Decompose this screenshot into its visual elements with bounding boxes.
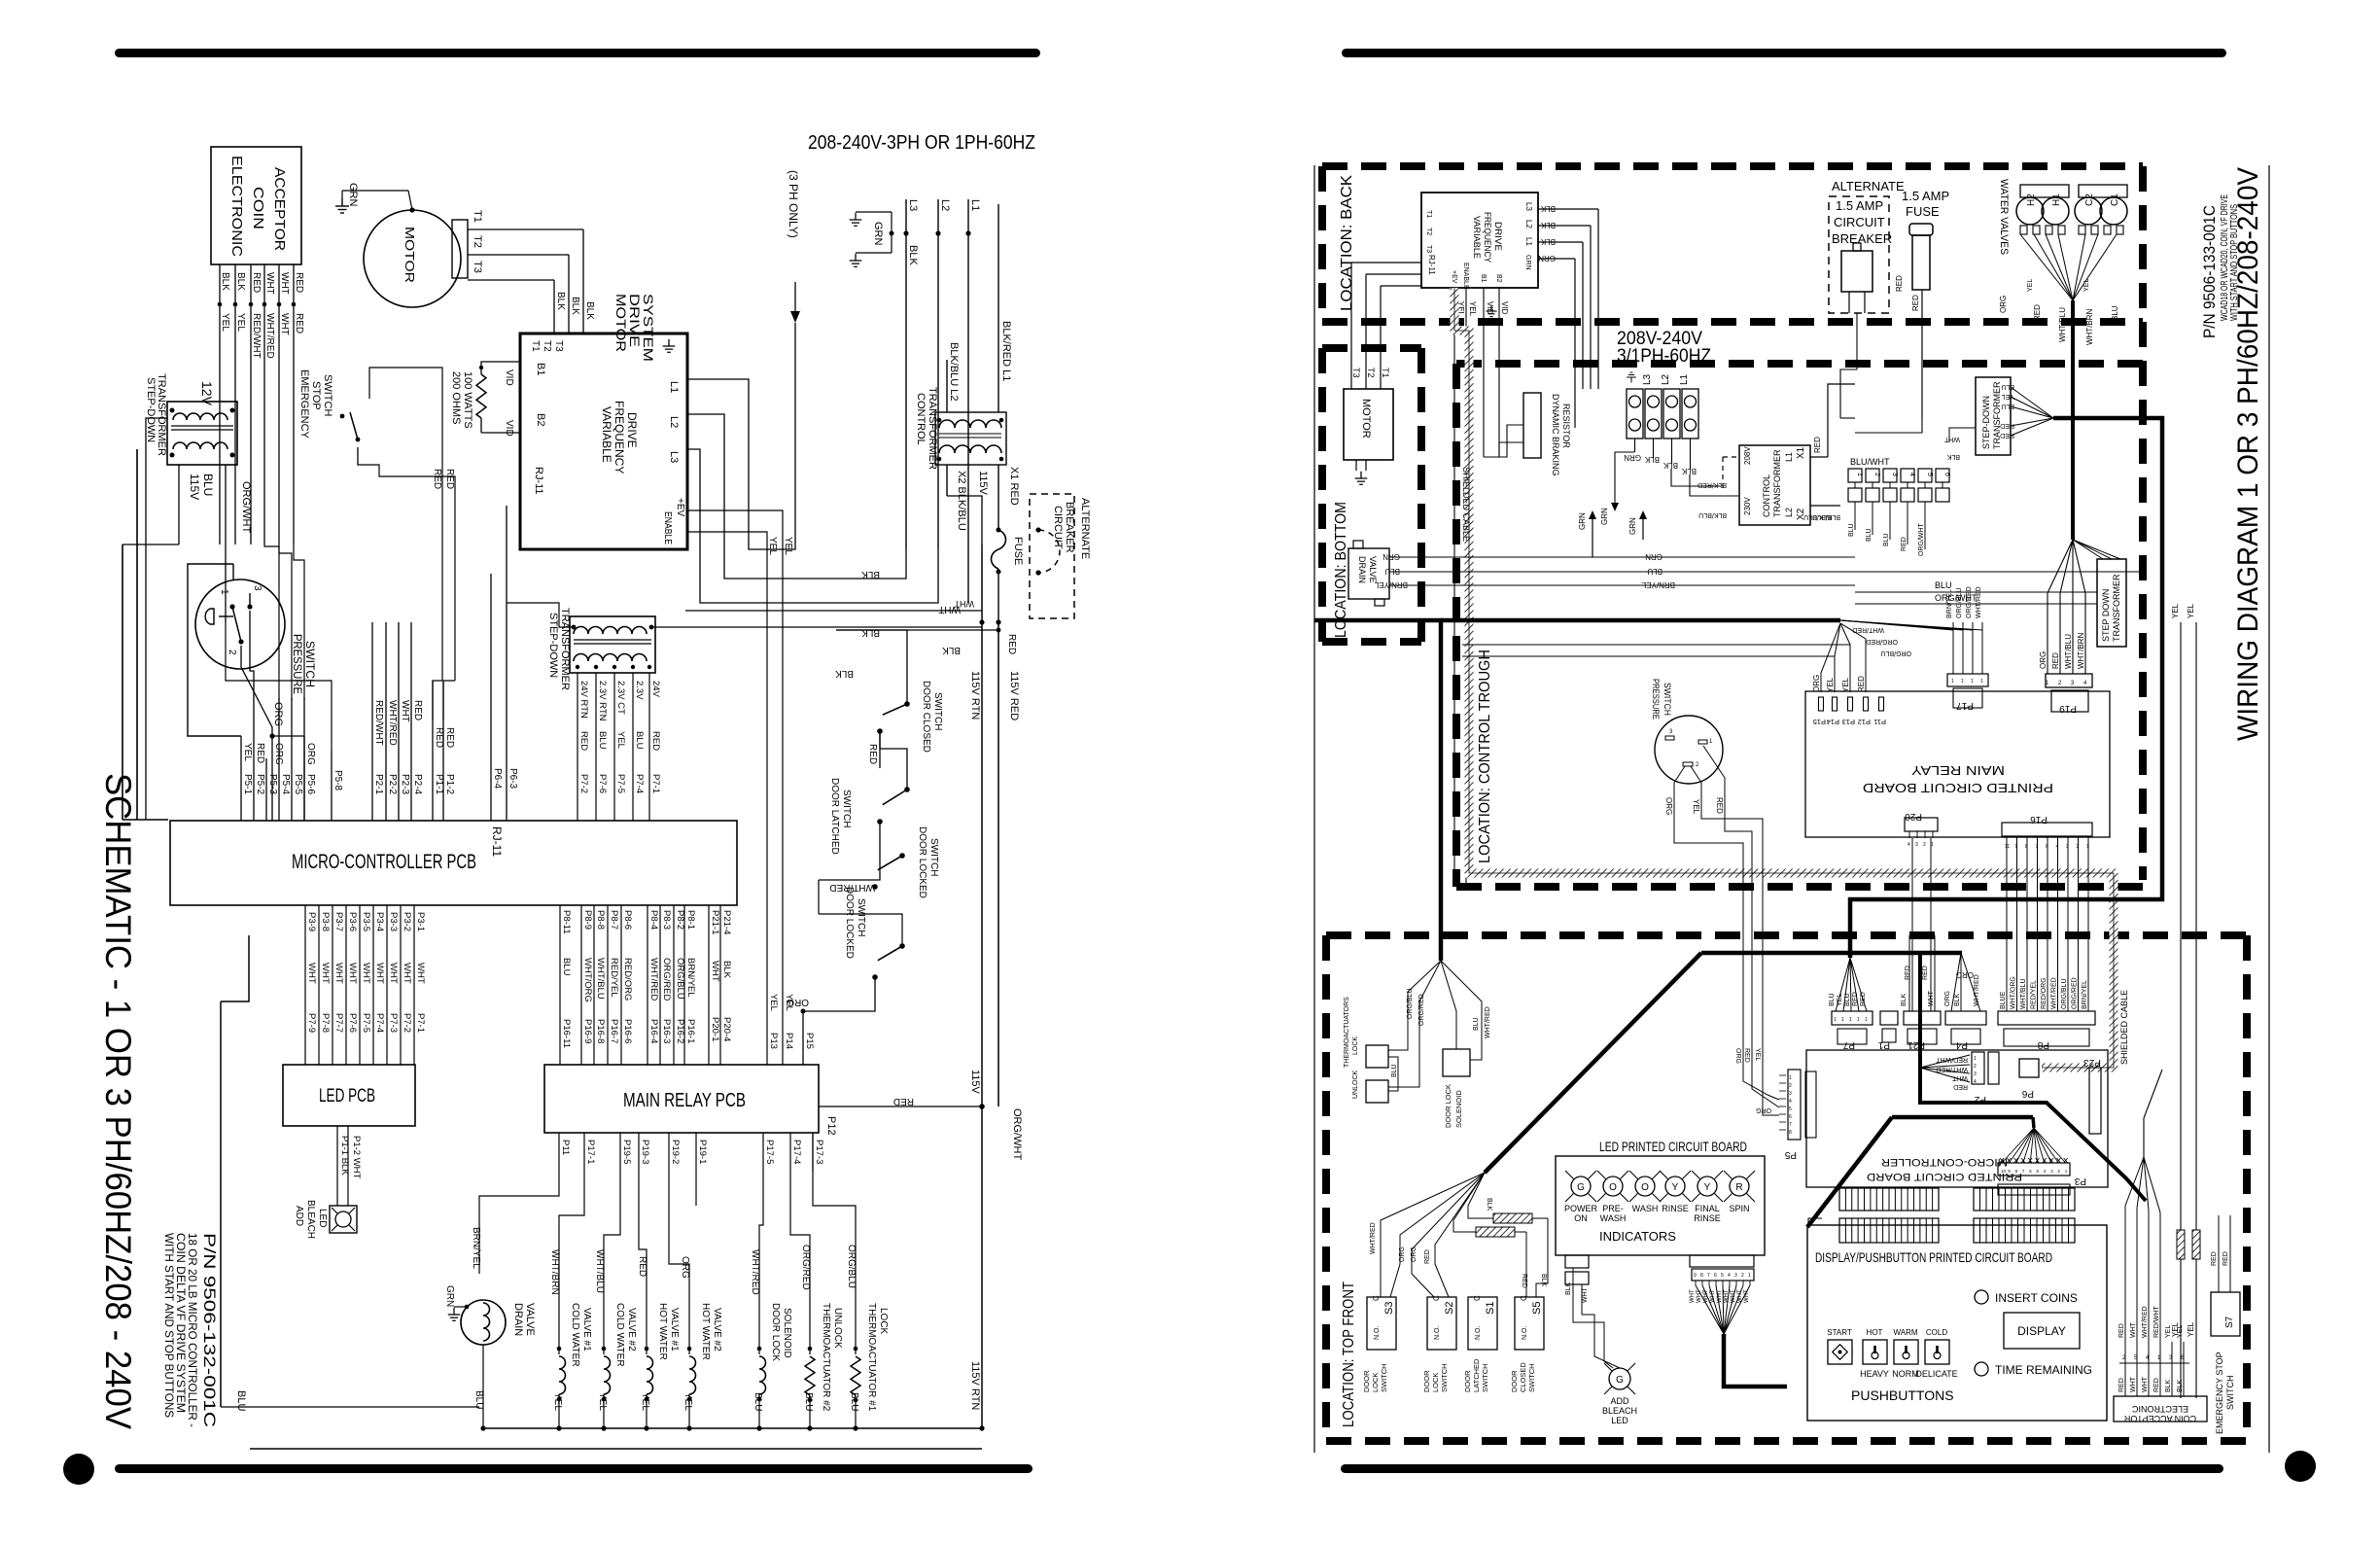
svg-text:BLU: BLU [2111,305,2119,321]
svg-text:DRAIN: DRAIN [1357,556,1367,583]
svg-text:GRN: GRN [1382,552,1400,561]
svg-text:BLK: BLK [570,297,580,315]
svg-text:WHT/BRN: WHT/BRN [549,1249,560,1295]
svg-text:RED: RED [1857,676,1866,692]
svg-text:YEL: YEL [2171,603,2180,618]
svg-text:T2: T2 [1425,228,1432,235]
svg-text:BLU: BLU [1829,993,1836,1006]
svg-text:ORG: ORG [1999,296,2008,313]
svg-text:6: 6 [1943,473,1950,476]
svg-text:WHT/BLU: WHT/BLU [2020,979,2027,1010]
svg-text:P2-3: P2-3 [400,774,410,795]
svg-text:1: 1 [1748,1273,1751,1279]
svg-text:RED: RED [294,272,304,293]
svg-text:BLU: BLU [235,1390,247,1411]
svg-text:(3 PH ONLY): (3 PH ONLY) [787,170,800,238]
svg-text:RED: RED [1006,634,1017,654]
svg-text:P7-3: P7-3 [388,1013,399,1033]
svg-text:208-240V-3PH OR 1PH-60HZ: 208-240V-3PH OR 1PH-60HZ [808,132,1035,154]
svg-text:ORG/BLU: ORG/BLU [1956,587,1963,618]
svg-text:P1: P1 [1877,1039,1890,1050]
svg-text:BREAKER: BREAKER [1064,502,1075,553]
svg-text:P6-3: P6-3 [507,768,518,790]
svg-text:RED: RED [2033,304,2042,321]
svg-text:P16-7: P16-7 [609,1019,619,1043]
svg-text:115V: 115V [188,474,201,500]
svg-text:ACCEPTOR: ACCEPTOR [271,167,288,251]
svg-text:ORG/RED: ORG/RED [1418,994,1425,1026]
svg-text:P7-1: P7-1 [650,774,661,793]
svg-text:DISPLAY: DISPLAY [2017,1324,2066,1338]
svg-text:SWITCH: SWITCH [841,790,852,827]
svg-text:BLU: BLU [201,474,215,496]
svg-text:WHT: WHT [333,963,344,984]
svg-text:P2: P2 [1974,1094,1986,1105]
svg-text:P15: P15 [804,1033,815,1049]
svg-text:P5-5: P5-5 [293,774,303,795]
svg-text:WHT: WHT [1690,1289,1696,1303]
svg-text:BLEACH: BLEACH [305,1200,316,1239]
svg-text:208V: 208V [1743,446,1752,465]
svg-text:P17-1: P17-1 [585,1140,596,1164]
svg-text:YEL: YEL [2002,393,2014,400]
svg-text:P8-3: P8-3 [661,910,672,930]
svg-text:BLU: BLU [849,1392,859,1411]
svg-text:BLK: BLK [721,961,732,979]
svg-text:BLK: BLK [584,301,595,320]
svg-text:ORG: ORG [1411,1247,1417,1262]
svg-text:P7-9: P7-9 [306,1013,317,1033]
svg-text:8: 8 [2025,844,2028,850]
svg-text:P7-5: P7-5 [361,1013,371,1033]
svg-text:P16-9: P16-9 [582,1019,593,1043]
svg-text:WHT: WHT [415,963,426,984]
svg-text:HOT WATER: HOT WATER [700,1303,711,1360]
svg-text:BREAKER: BREAKER [1832,231,1892,246]
svg-text:WHT/RED: WHT/RED [264,313,275,359]
svg-text:WHT: WHT [710,961,720,982]
svg-text:BRN/YEL: BRN/YEL [2082,980,2088,1009]
svg-text:P15: P15 [1813,718,1826,726]
svg-text:P/N 9506-133-001C: P/N 9506-133-001C [2200,205,2219,338]
svg-text:ORG: ORG [272,702,284,726]
svg-text:INDICATORS: INDICATORS [1599,1229,1676,1244]
svg-text:WHT: WHT [361,963,371,984]
svg-text:RED/YEL: RED/YEL [2031,980,2038,1009]
svg-text:B2: B2 [1495,274,1502,283]
svg-text:1: 1 [1849,1017,1852,1023]
svg-text:LOCATION: CONTROL TROUGH: LOCATION: CONTROL TROUGH [1477,650,1493,863]
svg-text:2: 2 [1974,1064,1977,1070]
svg-text:WATER VALVES: WATER VALVES [1998,179,2010,255]
svg-text:RED: RED [893,1096,914,1106]
svg-text:LOCATION: TOP FRONT: LOCATION: TOP FRONT [1341,1282,1357,1427]
svg-text:BLU: BLU [1473,1017,1480,1031]
svg-text:P21-4: P21-4 [721,910,732,934]
svg-text:GRN: GRN [444,1285,455,1307]
svg-text:S2: S2 [1444,1302,1455,1315]
svg-text:4: 4 [1728,1273,1731,1279]
svg-text:RED: RED [637,1256,647,1277]
svg-text:YEL: YEL [615,731,626,749]
svg-text:SWITCH: SWITCH [322,374,333,416]
svg-text:BRN/YEL: BRN/YEL [1946,589,1953,618]
svg-text:L1: L1 [1784,452,1794,462]
svg-text:RED: RED [255,743,265,763]
svg-text:BLK: BLK [1540,204,1556,213]
svg-text:P5: P5 [1784,1149,1797,1160]
svg-text:BLK: BLK [1486,1198,1492,1211]
svg-text:YEL: YEL [2083,279,2090,292]
svg-text:WHT/RED: WHT/RED [2142,1306,2149,1338]
svg-text:BLU: BLU [1647,567,1662,576]
svg-text:ADD: ADD [1610,1396,1629,1406]
svg-text:WHT: WHT [388,963,399,984]
svg-text:YEL: YEL [1754,1048,1761,1061]
svg-text:ELECTRONIC: ELECTRONIC [2131,1404,2188,1414]
svg-text:P6-4: P6-4 [492,768,503,790]
svg-text:Y: Y [1672,1182,1679,1193]
svg-text:P5-8: P5-8 [332,770,343,791]
svg-text:L3: L3 [907,199,919,211]
svg-text:DRIVE: DRIVE [1492,222,1503,251]
svg-text:ORG/RED: ORG/RED [1966,586,1973,618]
svg-text:P21-1: P21-1 [710,910,720,934]
svg-text:1: 1 [1789,1075,1792,1081]
svg-text:EMERGENCY: EMERGENCY [298,369,310,439]
svg-text:WHT/RED: WHT/RED [387,700,398,746]
svg-text:ENABLE: ENABLE [662,511,673,544]
svg-text:P3-2: P3-2 [402,912,412,931]
svg-text:WHT: WHT [400,700,410,722]
svg-text:P13: P13 [768,1033,779,1049]
svg-text:P4: P4 [1955,1039,1968,1050]
svg-text:9: 9 [1694,1273,1697,1279]
svg-text:L1: L1 [969,199,981,211]
svg-text:ORG: ORG [1734,1048,1741,1064]
svg-text:SCHEMATIC - 1 OR 3 PH/60HZ/2: SCHEMATIC - 1 OR 3 PH/60HZ/208 - 240V [98,773,138,1429]
svg-text:COLD WATER: COLD WATER [614,1303,625,1367]
svg-text:5: 5 [1721,1273,1724,1279]
svg-text:P5-3: P5-3 [267,774,278,795]
svg-text:SWITCH: SWITCH [928,838,939,876]
svg-text:CIRCUIT: CIRCUIT [1834,215,1885,229]
svg-text:BLU: BLU [1391,1064,1398,1077]
svg-text:BRN/YEL: BRN/YEL [471,1227,481,1269]
svg-text:WHT/RED: WHT/RED [648,958,659,1001]
svg-text:WHT: WHT [320,963,331,984]
svg-text:ORG: ORG [1956,970,1974,979]
svg-text:TRANSFORMER: TRANSFORMER [927,387,938,470]
svg-text:9: 9 [2015,844,2018,850]
svg-text:T3: T3 [1351,368,1361,378]
svg-text:YEL: YEL [2027,279,2034,292]
svg-text:2: 2 [2077,844,2080,850]
svg-text:TRANSFORMER: TRANSFORMER [156,373,167,456]
svg-text:BLU: BLU [634,731,645,750]
svg-text:DRIVE: DRIVE [625,412,639,448]
svg-text:P1-2: P1-2 [444,774,455,795]
svg-text:P12: P12 [825,1116,837,1136]
svg-text:BLU: BLU [1866,528,1872,542]
svg-text:RED/WHT: RED/WHT [251,313,262,359]
svg-text:P7-8: P7-8 [320,1013,331,1033]
svg-text:YEL: YEL [220,313,230,332]
svg-text:ORG/BLU: ORG/BLU [2061,978,2068,1009]
svg-text:3: 3 [1891,473,1898,476]
svg-text:T1: T1 [1425,210,1432,218]
svg-text:WHT: WHT [2142,1376,2149,1392]
svg-text:BLU: BLU [1844,993,1851,1006]
svg-text:SWITCH: SWITCH [1380,1363,1388,1392]
svg-text:WASH: WASH [1632,1204,1659,1213]
svg-text:ORG/WHT: ORG/WHT [240,481,252,533]
svg-text:ADD: ADD [294,1206,304,1226]
svg-text:VID: VID [504,420,514,437]
svg-text:ORG/WHT: ORG/WHT [1918,522,1925,556]
svg-text:WHT: WHT [938,604,961,614]
svg-text:P16-6: P16-6 [622,1019,633,1043]
svg-text:WHT/RED: WHT/RED [1976,586,1982,618]
svg-text:INSERT COINS: INSERT COINS [1995,1291,2078,1305]
svg-text:GRN: GRN [1538,254,1556,263]
svg-text:RED/ORG: RED/ORG [622,958,633,1001]
svg-text:RED: RED [2222,1251,2229,1266]
svg-text:X1 RED: X1 RED [1008,467,1020,506]
svg-text:P17-3: P17-3 [814,1140,824,1164]
svg-text:B2: B2 [535,413,546,426]
svg-text:P7-2: P7-2 [578,774,589,793]
svg-text:P16-3: P16-3 [661,1019,672,1043]
svg-text:BLK/RED L1: BLK/RED L1 [1000,321,1012,381]
svg-text:5: 5 [1926,473,1933,476]
svg-text:RJ-11: RJ-11 [1427,255,1436,275]
svg-text:RED: RED [251,272,262,293]
svg-text:ORG/BLU: ORG/BLU [675,958,685,1000]
svg-text:RED: RED [294,313,304,334]
svg-text:P8-1: P8-1 [685,910,696,930]
svg-text:ORG: ORG [1399,1247,1406,1262]
svg-text:STOP: STOP [310,381,322,410]
svg-text:L3: L3 [1524,202,1533,211]
svg-text:GRN: GRN [347,183,359,207]
svg-text:5: 5 [1789,1106,1792,1112]
svg-text:1: 1 [1980,679,1983,685]
svg-text:2: 2 [1873,473,1880,476]
svg-text:3: 3 [1734,1273,1737,1279]
svg-text:T1: T1 [1381,368,1390,378]
svg-text:P7-6: P7-6 [347,1013,358,1033]
svg-text:G: G [1616,1375,1624,1386]
svg-text:MOTOR: MOTOR [1360,399,1372,439]
svg-text:PRE-: PRE- [1602,1204,1624,1213]
svg-text:P11: P11 [560,1140,571,1155]
svg-text:DELICATE: DELICATE [1915,1369,1957,1379]
svg-text:VID: VID [504,369,514,386]
svg-text:T3: T3 [472,261,483,273]
svg-text:BLK: BLK [835,668,854,679]
svg-text:THERMOACTUATOR #1: THERMOACTUATOR #1 [866,1303,877,1412]
svg-text:ORG: ORG [1664,797,1673,815]
svg-text:GRN: GRN [1624,453,1641,462]
svg-text:P17-4: P17-4 [791,1140,802,1164]
svg-text:H1: H1 [2051,193,2062,206]
svg-text:G: G [1577,1182,1585,1193]
svg-text:H2: H2 [2026,193,2037,206]
svg-text:GRN: GRN [1578,512,1587,530]
svg-text:WHT: WHT [1582,1286,1589,1303]
svg-text:PRINTED CIRCUIT BOARD: PRINTED CIRCUIT BOARD [1867,1171,2022,1182]
svg-text:STEP-DOWN: STEP-DOWN [1981,396,1991,449]
svg-text:P14: P14 [1827,718,1839,726]
svg-text:C1: C1 [2110,193,2120,206]
svg-text:SWITCH: SWITCH [1662,683,1672,716]
svg-text:RED: RED [1743,1048,1750,1063]
svg-text:TRANSFORMER: TRANSFORMER [1772,449,1782,517]
svg-text:SHIELDED CABLE: SHIELDED CABLE [2119,990,2129,1065]
svg-text:P7-4: P7-4 [634,774,645,793]
svg-text:P19-5: P19-5 [621,1140,632,1164]
svg-text:ORG/RED: ORG/RED [1866,638,1898,645]
svg-text:PRESSURE: PRESSURE [1651,679,1661,720]
svg-text:P16-4: P16-4 [648,1019,659,1043]
svg-text:YEL: YEL [1826,677,1835,692]
svg-text:RED: RED [1901,537,1907,551]
svg-text:WHT/BLU: WHT/BLU [594,1249,605,1293]
svg-text:3: 3 [252,585,262,591]
svg-text:RED: RED [1922,966,1929,980]
svg-text:RED/ORG: RED/ORG [2041,977,2047,1009]
svg-text:1: 1 [1857,1017,1860,1023]
svg-text:YEL: YEL [1468,301,1477,317]
svg-text:BLK: BLK [861,627,880,638]
svg-text:TIME REMAINING: TIME REMAINING [1995,1363,2092,1377]
svg-text:EMERGENCY STOP: EMERGENCY STOP [2215,1352,2224,1434]
svg-text:P20-1: P20-1 [710,1017,720,1041]
svg-text:FUSE: FUSE [1012,537,1024,565]
svg-text:RED: RED [2153,1378,2160,1392]
svg-text:ORG/RED: ORG/RED [2072,977,2079,1009]
svg-text:RINSE: RINSE [1662,1204,1689,1213]
svg-text:SWITCH: SWITCH [2225,1376,2235,1411]
svg-text:WASH: WASH [1600,1213,1627,1223]
svg-text:CONTROL: CONTROL [915,393,927,445]
svg-text:WHT: WHT [1737,1289,1743,1303]
svg-text:ORG/BLU: ORG/BLU [1880,650,1911,656]
svg-text:1.5 AMP: 1.5 AMP [1836,198,1883,213]
svg-text:BRN/YEL: BRN/YEL [685,958,696,998]
svg-text:BLK: BLK [2177,1379,2184,1392]
svg-text:P8-8: P8-8 [595,910,606,930]
svg-text:L1: L1 [1524,237,1533,246]
svg-text:VID: VID [1500,301,1509,315]
svg-text:P17-5: P17-5 [764,1140,775,1164]
svg-text:BLU: BLU [1848,523,1855,537]
svg-text:SPIN: SPIN [1729,1204,1749,1213]
svg-text:BLK: BLK [942,645,961,655]
svg-text:P3-5: P3-5 [361,912,371,931]
svg-text:LOCATION: BACK: LOCATION: BACK [1339,175,1355,311]
svg-text:WITH START AND STOP BUTTONS: WITH START AND STOP BUTTONS [162,1233,176,1418]
svg-text:WHT/RED: WHT/RED [1370,1222,1377,1254]
svg-text:COLD WATER: COLD WATER [570,1303,580,1367]
svg-text:P5-6: P5-6 [305,774,316,795]
svg-text:SWITCH: SWITCH [1440,1363,1449,1392]
svg-text:SWITCH: SWITCH [856,898,866,936]
svg-text:BLK: BLK [1901,993,1907,1006]
svg-text:2: 2 [227,650,237,655]
svg-text:PRESSURE: PRESSURE [291,634,304,694]
svg-text:C: C [1372,1295,1381,1301]
svg-text:P3-8: P3-8 [320,912,331,931]
svg-text:T2: T2 [472,235,483,248]
svg-text:P16-2: P16-2 [675,1019,685,1043]
svg-text:WHT/RED: WHT/RED [750,1249,760,1295]
svg-text:TRANSFORMER: TRANSFORMER [2112,574,2121,642]
svg-text:BLK: BLK [1540,221,1556,229]
svg-text:Y: Y [1704,1182,1711,1193]
svg-text:YEL: YEL [1692,799,1700,815]
svg-text:WHT: WHT [1703,1289,1709,1303]
svg-text:RED/YEL: RED/YEL [609,958,619,998]
svg-text:8: 8 [1700,1273,1703,1279]
svg-text:VARIABLE: VARIABLE [600,406,613,463]
svg-text:B1: B1 [1480,274,1487,283]
svg-text:ORG: ORG [1944,991,1951,1006]
svg-text:RED: RED [1813,437,1822,453]
svg-text:1: 1 [1961,679,1964,685]
svg-text:DOOR: DOOR [1463,1370,1472,1392]
svg-text:BLK: BLK [1946,453,1960,460]
svg-text:VALVE #1: VALVE #1 [669,1308,680,1352]
svg-text:WHT: WHT [347,963,358,984]
svg-text:WHT: WHT [1710,1289,1716,1303]
svg-text:DOOR CLOSED: DOOR CLOSED [921,681,931,753]
svg-text:WHT: WHT [2130,1376,2137,1392]
svg-text:2.3V RTN: 2.3V RTN [597,681,608,721]
svg-text:WHT: WHT [1717,1289,1723,1303]
svg-text:GRN: GRN [1524,255,1531,270]
svg-text:DOOR LATCHED: DOOR LATCHED [829,778,840,855]
svg-text:YEL: YEL [767,537,778,555]
svg-text:115V RED: 115V RED [1008,671,1020,720]
svg-text:RED: RED [867,744,878,764]
svg-text:VID: VID [1486,301,1494,315]
svg-text:P7-2: P7-2 [402,1013,412,1033]
svg-text:ENABLE: ENABLE [1462,263,1469,290]
svg-text:1: 1 [1971,679,1974,685]
svg-text:YEL: YEL [2187,603,2195,618]
svg-text:WITH START AND STOP BUTTONS: WITH START AND STOP BUTTONS [2229,204,2240,321]
svg-text:PRINTED CIRCUIT BOARD: PRINTED CIRCUIT BOARD [1863,781,2053,795]
svg-text:P12: P12 [1858,718,1871,726]
svg-text:BLU: BLU [752,1392,763,1411]
svg-text:T1: T1 [472,210,483,223]
svg-text:MAIN RELAY: MAIN RELAY [1911,763,2005,778]
svg-text:RED: RED [650,731,661,751]
svg-text:L2: L2 [1661,373,1671,385]
svg-text:HOT: HOT [1867,1328,1883,1337]
svg-text:VALVE #1: VALVE #1 [581,1308,592,1352]
svg-text:P2-1: P2-1 [373,774,384,795]
svg-text:L1: L1 [668,381,680,393]
svg-text:BLK: BLK [1540,1274,1547,1287]
svg-text:ELECTRONIC: ELECTRONIC [228,156,245,257]
svg-text:P19-2: P19-2 [670,1140,681,1164]
svg-text:C2: C2 [2084,193,2095,206]
svg-text:4: 4 [1974,1079,1977,1085]
svg-text:3: 3 [2066,844,2069,850]
